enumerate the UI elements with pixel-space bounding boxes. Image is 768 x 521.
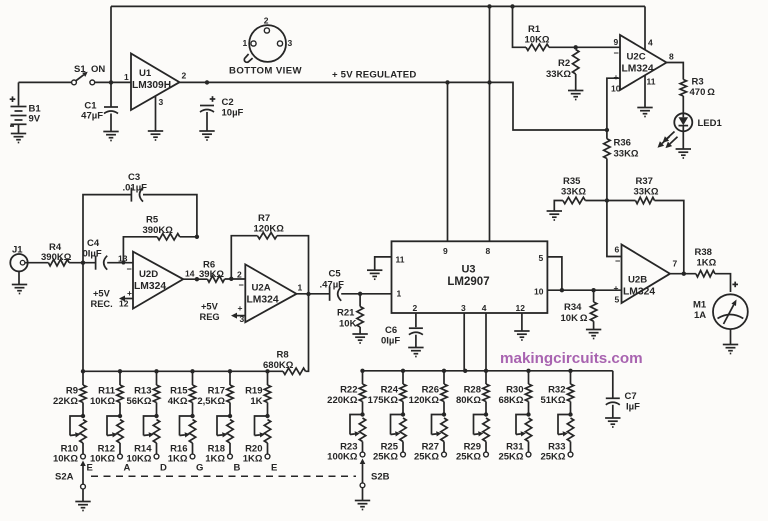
node bus R19 (265, 369, 269, 373)
label BOTTOM VIEW (229, 66, 303, 77)
svg-text:.01µF: .01µF (123, 183, 148, 194)
svg-text:4KΩ: 4KΩ (168, 396, 188, 407)
wire C1 to ground (110, 114, 112, 132)
wire +5V rail (180, 81, 490, 83)
svg-text:33KΩ: 33KΩ (546, 69, 571, 80)
label pin4 U2C (648, 38, 653, 48)
svg-text:R37: R37 (636, 176, 653, 187)
capacitor C1 (104, 107, 118, 114)
svg-text:G: G (196, 463, 203, 474)
resistor R17 (227, 371, 233, 416)
label R26 (409, 385, 440, 407)
label R23 (327, 442, 358, 463)
svg-text:2: 2 (237, 270, 242, 280)
node input junction (109, 80, 113, 84)
wire rail branch to U2C pin10 (490, 82, 607, 130)
wire U3 pin12 (521, 313, 523, 331)
svg-text:+: + (238, 303, 243, 313)
node pot R27 (442, 412, 446, 416)
svg-text:10KΩ: 10KΩ (126, 454, 151, 465)
svg-text:8: 8 (486, 246, 491, 256)
U2D pin12 arrow (119, 296, 133, 302)
node R21 tap (358, 292, 362, 296)
LED LED1 (674, 113, 692, 131)
ground S2B (355, 501, 370, 510)
wire C2 to ground (206, 112, 208, 131)
node pot R16 (190, 414, 194, 418)
svg-text:+ 5V REGULATED: + 5V REGULATED (332, 70, 416, 81)
svg-text:LM324: LM324 (623, 287, 655, 298)
svg-text:0IµF: 0IµF (381, 336, 400, 347)
svg-text:51KΩ: 51KΩ (540, 395, 565, 406)
svg-text:IµF: IµF (626, 402, 640, 413)
label R20 (243, 444, 263, 465)
resistor R15 (189, 371, 195, 416)
svg-text:5: 5 (539, 253, 544, 263)
node pot R18 (228, 414, 232, 418)
node pin3 bus tap (463, 369, 467, 373)
resistor R19 (264, 371, 270, 416)
wire R7 right (277, 236, 309, 294)
svg-text:R17: R17 (208, 386, 225, 397)
wire C5 to U3 pin1 (341, 293, 391, 295)
svg-text:100KΩ: 100KΩ (327, 452, 358, 463)
svg-text:U2B: U2B (628, 275, 647, 286)
label R30 (498, 385, 523, 407)
node R2 junction (574, 45, 578, 49)
svg-text:U2C: U2C (627, 52, 646, 63)
resistor R35 (563, 197, 585, 203)
label contact E (87, 463, 93, 474)
label R5 390K (143, 215, 174, 237)
svg-text:1A: 1A (694, 310, 706, 321)
wire U3 pin5 (547, 257, 562, 290)
label R7 120K (254, 213, 285, 235)
ground C7 (605, 418, 620, 427)
wire U3 pin11 to ground (375, 257, 392, 270)
label pin11 U2C (647, 77, 656, 87)
resistor R5 (157, 234, 180, 240)
svg-text:10KΩ: 10KΩ (90, 454, 115, 465)
wire top supply bus (111, 5, 645, 7)
label R37 33K (634, 176, 659, 198)
svg-text:.47µF: .47µF (320, 280, 345, 291)
wire bus to R1 (513, 6, 527, 47)
switch S2B wiper (360, 459, 366, 484)
label C7 1uF (625, 391, 641, 413)
node pot R23 (360, 412, 364, 416)
label R8 680K (263, 350, 294, 372)
svg-text:LM324: LM324 (622, 64, 654, 75)
op-amp U2B LM324 (622, 245, 671, 304)
ground R21 (352, 334, 367, 343)
svg-text:LM324: LM324 (247, 294, 279, 305)
resistor R2 (573, 47, 579, 90)
label contact B (234, 463, 241, 474)
label R13 (126, 386, 151, 408)
svg-text:470 Ω: 470 Ω (690, 87, 716, 98)
node U2A out junction (306, 292, 310, 296)
label R28 (456, 385, 481, 407)
label pin9 U2C (614, 37, 619, 58)
node rail pin9 tap (445, 80, 449, 84)
wire U2C pin11 to ground (644, 75, 646, 107)
svg-text:R30: R30 (506, 385, 523, 396)
wire M1 to ground (730, 329, 732, 344)
label contact D (160, 463, 167, 474)
wire S2A to ground (82, 489, 84, 501)
node bus R30 (526, 369, 530, 373)
ground C6 (408, 348, 423, 357)
label pin5 U2B (614, 283, 620, 305)
ground R2 (568, 91, 583, 100)
wire U3 pin3 (463, 313, 465, 371)
svg-text:R8: R8 (277, 350, 289, 361)
wire input to bus (82, 263, 84, 372)
svg-text:9: 9 (614, 37, 619, 47)
resistor R34 (590, 290, 596, 329)
svg-text:2: 2 (182, 71, 187, 81)
wire R35 to node (585, 200, 607, 202)
label pin11 U3 (396, 255, 405, 265)
svg-text:S2A: S2A (55, 472, 74, 483)
label pin5 U3 (539, 253, 544, 263)
svg-text:C3: C3 (128, 172, 140, 183)
resistor R21 (357, 294, 363, 334)
contact R23 (360, 452, 365, 457)
svg-text:2: 2 (264, 16, 269, 26)
op-amp U2C LM324 (620, 35, 667, 90)
svg-text:25KΩ: 25KΩ (498, 452, 523, 463)
resistor R32 (567, 371, 573, 415)
wire R35 to ground (554, 201, 563, 211)
svg-text:12: 12 (516, 303, 526, 313)
contact G (190, 454, 195, 459)
label +5V REG (200, 302, 220, 323)
svg-text:R7: R7 (258, 213, 270, 224)
node U2D out junction (195, 277, 199, 281)
label R6 39K (199, 260, 224, 281)
label B1 9V (29, 104, 42, 125)
svg-text:+5V: +5V (201, 302, 219, 312)
svg-text:220KΩ: 220KΩ (327, 395, 358, 406)
IC U3 LM2907 (392, 241, 548, 313)
label pin3 U2A (238, 303, 245, 324)
svg-text:33KΩ: 33KΩ (614, 149, 639, 160)
svg-text:1KΩ: 1KΩ (697, 258, 717, 269)
node pot R33 (568, 412, 572, 416)
svg-text:120KΩ: 120KΩ (409, 395, 440, 406)
wire rail to U3 pin9 (447, 82, 449, 241)
wire U2D out (183, 278, 207, 280)
svg-text:R32: R32 (548, 385, 565, 396)
svg-text:R13: R13 (134, 386, 151, 397)
label R29 (456, 442, 481, 463)
svg-text:25KΩ: 25KΩ (414, 452, 439, 463)
node summing junction (605, 198, 609, 202)
label R35 33K (561, 176, 586, 198)
svg-text:390KΩ: 390KΩ (41, 252, 72, 263)
svg-text:R35: R35 (563, 176, 581, 187)
label R25 (373, 442, 399, 463)
svg-text:1KΩ: 1KΩ (205, 454, 225, 465)
node pot R14 (154, 414, 158, 418)
label R1 10K (525, 24, 550, 46)
node bus R15 (190, 369, 194, 373)
ground C2 (199, 131, 214, 140)
wire R4 to C4 (69, 262, 96, 264)
ground B1 (11, 134, 26, 143)
label contact E (271, 463, 277, 474)
contact B (228, 454, 233, 459)
svg-text:R15: R15 (170, 386, 188, 397)
label R17 (197, 386, 225, 408)
svg-text:+5V: +5V (93, 289, 111, 299)
U2A pin3 arrow (231, 313, 245, 319)
resistor R1 (526, 44, 549, 50)
node pot R31 (526, 412, 530, 416)
contact R31 (526, 452, 531, 457)
label R2 33K (546, 58, 571, 80)
svg-text:1: 1 (298, 283, 303, 293)
svg-text:−: − (614, 48, 619, 58)
node top bus junction 2 (510, 4, 514, 8)
svg-text:3: 3 (288, 38, 293, 48)
ground R35 (547, 211, 562, 220)
svg-text:ON: ON (91, 64, 105, 75)
node U2C plus junction (605, 128, 609, 132)
wire bus to C7 (612, 371, 614, 398)
ground M1 (723, 345, 738, 354)
label R22 (327, 385, 358, 407)
svg-text:LED1: LED1 (698, 118, 723, 129)
svg-text:3: 3 (461, 303, 466, 313)
label pin2 U3 (413, 303, 418, 313)
resistor R22 (359, 371, 365, 415)
wire R5 left (123, 237, 157, 263)
svg-text:11: 11 (647, 77, 656, 87)
resistor R4 (48, 260, 69, 266)
potentiometer R23 (350, 415, 366, 453)
svg-text:R36: R36 (614, 138, 631, 149)
contact A (118, 454, 123, 459)
ground C1 (103, 132, 118, 141)
svg-text:10KΩ: 10KΩ (53, 454, 78, 465)
resistor R28 (483, 371, 489, 415)
battery B1 (10, 82, 27, 133)
svg-text:1K: 1K (250, 396, 262, 407)
svg-text:LM309H: LM309H (132, 80, 171, 91)
wire battery to switch (19, 81, 72, 83)
capacitor C4 (96, 256, 108, 270)
wire LED to ground (682, 131, 684, 148)
svg-text:2,5KΩ: 2,5KΩ (197, 396, 225, 407)
label M1 plus (732, 282, 738, 288)
svg-text:13: 13 (118, 254, 128, 264)
node pin5 pin10 junction (560, 288, 564, 292)
wire U3 pin4 (485, 313, 487, 371)
wire C7 to ground (612, 405, 614, 418)
wire U3 pin10 to U2B (547, 289, 621, 291)
wire U3 pin2 (415, 313, 417, 327)
svg-text:9V: 9V (29, 114, 41, 125)
wire R3 to LED (682, 96, 684, 113)
svg-text:LM324: LM324 (134, 281, 166, 292)
watermark (500, 350, 643, 367)
svg-text:1: 1 (243, 38, 248, 48)
regulator U1 LM309H (131, 54, 180, 111)
label C6 .01uF (381, 325, 400, 347)
label R36 33K (614, 138, 639, 160)
label R32 (540, 385, 565, 407)
label R10 (53, 444, 78, 465)
svg-text:D: D (160, 463, 167, 474)
svg-text:25KΩ: 25KΩ (456, 452, 481, 463)
svg-text:+: + (614, 72, 619, 82)
label C2 10uF (222, 97, 244, 119)
svg-text:1KΩ: 1KΩ (168, 454, 188, 465)
svg-text:80KΩ: 80KΩ (456, 395, 481, 406)
svg-text:R26: R26 (422, 385, 439, 396)
resistor R3 (680, 80, 686, 97)
label pin2 U1 (182, 71, 187, 81)
label C5 .47uF (320, 269, 345, 291)
svg-text:R24: R24 (381, 385, 399, 396)
label pin10 U3 (534, 287, 544, 297)
connector J1 (10, 254, 27, 271)
svg-text:1: 1 (397, 289, 402, 299)
label R33 (540, 442, 565, 463)
svg-text:1KΩ: 1KΩ (243, 454, 263, 465)
node bus R24 (401, 369, 405, 373)
potentiometer R31 (516, 415, 532, 453)
potentiometer R12 (107, 416, 123, 454)
label R24 (368, 385, 399, 407)
capacitor C7 (606, 398, 620, 405)
svg-text:U2D: U2D (139, 269, 158, 280)
svg-text:25KΩ: 25KΩ (373, 452, 398, 463)
LED arrows (658, 132, 678, 149)
contact S2A pole (81, 484, 86, 489)
ground U3 pin12 (514, 331, 529, 340)
svg-text:7: 7 (673, 259, 678, 269)
svg-text:R1: R1 (528, 24, 541, 35)
resistor R13 (153, 371, 159, 416)
label pin1 U2A (298, 283, 303, 293)
svg-text:39KΩ: 39KΩ (199, 269, 224, 280)
svg-text:10K: 10K (339, 319, 357, 330)
svg-text:68KΩ: 68KΩ (498, 395, 523, 406)
potentiometer R25 (391, 415, 407, 453)
svg-text:25KΩ: 25KΩ (540, 452, 565, 463)
meter M1 (713, 294, 748, 329)
svg-text:−: − (127, 264, 132, 274)
node pot R12 (118, 414, 122, 418)
node pot R10 (81, 414, 85, 418)
node R5 tap (122, 261, 126, 265)
node bus R28 (484, 369, 488, 373)
svg-text:U1: U1 (139, 68, 152, 79)
node bus R22 (360, 369, 364, 373)
svg-text:LM2907: LM2907 (447, 276, 489, 288)
contact E (265, 454, 270, 459)
label C1 47uF (81, 101, 103, 122)
label R3 470 (690, 77, 716, 99)
ground U3 pin11 (367, 270, 382, 279)
label LED1 (698, 118, 723, 129)
contact D (154, 454, 159, 459)
svg-text:M1: M1 (693, 300, 707, 311)
wire R5 right (180, 236, 197, 238)
svg-text:0IµF: 0IµF (83, 249, 102, 260)
svg-text:C5: C5 (329, 269, 342, 280)
node bus R26 (442, 369, 446, 373)
svg-text:E: E (271, 463, 277, 474)
potentiometer R33 (558, 415, 574, 453)
switch S1 (72, 72, 95, 85)
node bus R32 (568, 369, 572, 373)
contact R27 (442, 452, 447, 457)
svg-text:56KΩ: 56KΩ (126, 396, 151, 407)
resistor R30 (525, 371, 531, 415)
label R19 (245, 386, 263, 408)
resistor R36 (604, 130, 610, 201)
op-amp U2D LM324 (133, 252, 183, 309)
label R9 (53, 386, 78, 408)
wire left bus (83, 370, 283, 372)
svg-text:390KΩ: 390KΩ (143, 225, 174, 236)
svg-text:R11: R11 (98, 386, 116, 397)
label R27 (414, 442, 439, 463)
ground S2A (75, 502, 90, 511)
node R5 C3 junction (195, 235, 199, 239)
capacitor C5 (330, 287, 342, 301)
label pin1 U1 (124, 72, 129, 82)
contact R29 (484, 452, 489, 457)
wire switch to U1 (95, 81, 131, 83)
wire J1 to ground (18, 271, 20, 284)
svg-text:4: 4 (648, 38, 653, 48)
label R18 (205, 444, 225, 465)
label contact A (124, 463, 131, 474)
capacitor C2 (200, 96, 215, 112)
wire C4 to U2D (107, 262, 133, 264)
switch S2A wiper (80, 461, 86, 485)
svg-text:2: 2 (413, 303, 418, 313)
label R14 (126, 444, 152, 465)
svg-text:−: − (615, 256, 620, 266)
svg-text:10µF: 10µF (222, 108, 244, 119)
wire U2C pin10 lead (607, 78, 620, 130)
label pin7 U2B (673, 259, 678, 269)
svg-text:R38: R38 (695, 247, 712, 258)
svg-text:C2: C2 (222, 97, 234, 108)
label connector pin1 (243, 38, 248, 48)
label S2A (55, 472, 74, 483)
svg-text:10K Ω: 10K Ω (561, 313, 588, 324)
svg-text:S2B: S2B (371, 472, 390, 483)
label contact G (196, 463, 203, 474)
ground R34 (586, 330, 601, 339)
label R15 (168, 386, 188, 408)
svg-text:5: 5 (615, 295, 620, 305)
label pin14 U2D (185, 269, 195, 279)
node bus R13 (154, 369, 158, 373)
resistor R9 (80, 371, 86, 416)
wire R7 left (231, 236, 257, 279)
wire C3 loop right (143, 195, 197, 237)
svg-text:10KΩ: 10KΩ (90, 396, 115, 407)
